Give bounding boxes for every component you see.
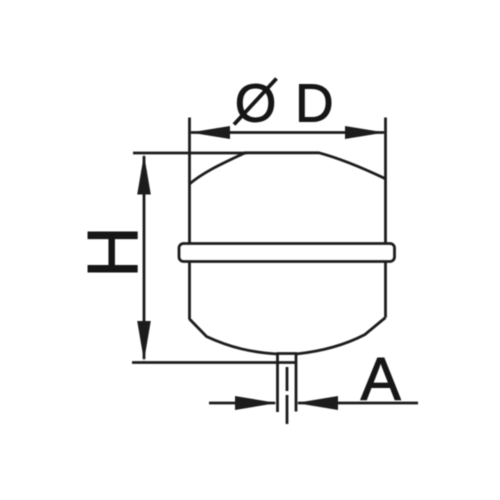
svg-text:D: D: [295, 75, 334, 134]
svg-text:H: H: [74, 226, 154, 278]
svg-text:A: A: [361, 345, 402, 413]
